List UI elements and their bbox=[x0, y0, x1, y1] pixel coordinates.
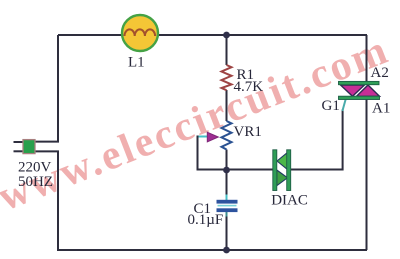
svg-text:L1: L1 bbox=[128, 54, 145, 70]
node bottom junction bbox=[223, 247, 230, 254]
svg-text:A2: A2 bbox=[371, 65, 389, 81]
resistor R1 bbox=[222, 65, 232, 90]
node mid junction bbox=[223, 167, 230, 174]
wire gate cyan diagonal bbox=[342, 100, 345, 112]
wire DIAC right to corner bbox=[291, 169, 344, 171]
svg-text:0.1µF: 0.1µF bbox=[188, 212, 224, 228]
wire bottom rail bbox=[58, 249, 367, 251]
wiper arrow bbox=[207, 132, 218, 142]
wire plug right top bbox=[35, 141, 59, 143]
potentiometer VR1 bbox=[222, 121, 232, 150]
wire gate vertical bbox=[342, 110, 344, 171]
wire top rail bbox=[58, 34, 367, 36]
wire wiper down and right to junction bbox=[198, 136, 227, 170]
wire junction to DIAC left bbox=[227, 169, 274, 171]
node top junction bbox=[223, 32, 230, 39]
wire right rail upper (A2) bbox=[366, 35, 368, 82]
wire VR1 to junction bbox=[226, 150, 228, 196]
wire plug right bottom bbox=[35, 150, 59, 152]
svg-text:A1: A1 bbox=[372, 101, 390, 117]
wire left rail upper bbox=[57, 35, 59, 141]
triac Q1 bbox=[339, 81, 380, 99]
svg-text:G1: G1 bbox=[322, 98, 340, 114]
diac D1 bbox=[273, 150, 291, 191]
wire right rail lower (A1) bbox=[366, 99, 368, 250]
svg-text:DIAC: DIAC bbox=[271, 192, 308, 208]
wire capacitor bottom lead (teal) bbox=[226, 212, 228, 218]
lamp L1 bbox=[122, 15, 158, 51]
wire capacitor top lead (cyan) bbox=[226, 195, 228, 201]
wire capacitor bottom to bottom rail bbox=[226, 217, 228, 251]
svg-text:VR1: VR1 bbox=[234, 124, 262, 140]
wire R1 to VR1 bbox=[226, 90, 228, 121]
capacitor C1 bbox=[217, 200, 238, 212]
wire wiper cyan segment bbox=[198, 136, 208, 138]
AC plug source bbox=[14, 140, 36, 154]
wire branch top (node to R1) bbox=[226, 35, 228, 65]
svg-text:4.7K: 4.7K bbox=[234, 79, 264, 95]
svg-text:50HZ: 50HZ bbox=[18, 174, 53, 190]
wire left rail lower bbox=[57, 151, 59, 251]
